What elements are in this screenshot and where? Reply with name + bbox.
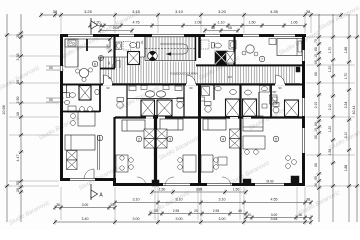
- shaft box left: [128, 52, 140, 65]
- bath partition x184: [183, 84, 185, 117]
- room1 dining table: [78, 111, 95, 126]
- pilaster bottom 1: [152, 180, 159, 186]
- svg-text:2.08: 2.08: [195, 21, 202, 25]
- svg-text:2.10: 2.10: [314, 102, 318, 109]
- wc left toilet: [117, 102, 123, 108]
- svg-text:1.70: 1.70: [344, 73, 348, 80]
- svg-text:16: 16: [16, 112, 20, 116]
- room number 4: [220, 136, 226, 142]
- room number 5: [273, 136, 279, 142]
- central washroom sinks: [145, 91, 154, 97]
- window gap top wall 1: [68, 34, 93, 37]
- section marker A bottom: [90, 184, 92, 200]
- room1 closet front: [97, 135, 99, 170]
- svg-text:60: 60: [49, 66, 53, 70]
- svg-text:3.15: 3.15: [132, 9, 141, 14]
- shaft pair center left: [141, 100, 155, 116]
- svg-text:1.20: 1.20: [328, 66, 332, 73]
- room4 door arc: [222, 177, 231, 186]
- svg-text:3: 3: [169, 137, 171, 141]
- interior wall y112 bath1: [62, 111, 100, 113]
- pilaster bottom 2: [243, 179, 251, 186]
- top bath R toilet: [212, 43, 215, 49]
- kitchen wall stub: [86, 39, 88, 51]
- bath5 shaft: [285, 100, 299, 117]
- svg-text:70: 70: [314, 39, 318, 43]
- svg-text:3.00: 3.00: [176, 217, 183, 221]
- window gap top wall 5: [274, 34, 295, 37]
- interior wall x155 (apartment divider): [154, 115, 157, 186]
- svg-text:10.44: 10.44: [352, 106, 356, 115]
- room4 bed: [203, 119, 226, 130]
- room7 table: [246, 45, 254, 53]
- svg-text:6: 6: [94, 62, 96, 66]
- svg-text:2.95: 2.95: [173, 209, 180, 213]
- svg-text:1.56: 1.56: [328, 149, 332, 156]
- interior wall y117 (bath band bottom): [115, 116, 302, 118]
- room2 door arc: [137, 177, 146, 186]
- bath1 washer: [68, 106, 76, 112]
- room1 side chairs: [120, 156, 124, 160]
- interior wall x198 (apartment divider): [198, 37, 201, 58]
- svg-text:88: 88: [314, 60, 318, 64]
- svg-text:3.10: 3.10: [219, 198, 226, 202]
- round dining table: [79, 68, 88, 77]
- svg-text:2.34: 2.34: [344, 102, 348, 109]
- svg-text:3.25: 3.25: [84, 9, 93, 14]
- wc right toilet: [177, 102, 183, 108]
- top bath R shaft 2: [226, 52, 235, 64]
- svg-text:3.10: 3.10: [176, 198, 183, 202]
- door arc into walkway 1: [104, 75, 113, 84]
- svg-text:10: 10: [314, 54, 318, 58]
- room4 desk: [201, 155, 213, 172]
- kitchen counter top: [65, 39, 110, 47]
- interior wall y68 left unit: [100, 68, 115, 70]
- room3 desk: [183, 155, 196, 172]
- interior wall y84 (bath band top): [63, 84, 302, 86]
- bottom dim row 3.10s: [115, 202, 311, 204]
- door gaps in y117 wall: [146, 117, 153, 119]
- room7 bed: [277, 39, 302, 56]
- interior wall x100 bath1: [99, 84, 101, 112]
- door arc into walkway 3: [276, 75, 285, 84]
- svg-text:88: 88: [314, 163, 318, 167]
- bath5 toilet: [273, 107, 279, 113]
- bath5 sink counter: [260, 86, 270, 93]
- svg-text:20: 20: [154, 209, 158, 213]
- svg-text:BP: BP: [272, 90, 276, 94]
- svg-text:88: 88: [314, 72, 318, 76]
- interior wall x234 upper: [233, 37, 235, 66]
- svg-text:3.20: 3.20: [218, 9, 227, 14]
- window gap top wall 3: [205, 34, 220, 37]
- stair bay right wall: [195, 37, 197, 61]
- outer wall bottom jog: [113, 178, 116, 186]
- svg-text:2.10: 2.10: [328, 104, 332, 111]
- pilaster bottom 3: [291, 176, 299, 185]
- svg-text:1.86: 1.86: [344, 47, 348, 54]
- room number 1: [97, 135, 103, 141]
- bath4 toilet: [205, 106, 211, 112]
- bath partition x127: [126, 84, 128, 117]
- window gap top wall stair: [152, 34, 184, 37]
- section marker A top: [90, 18, 92, 34]
- stair treads: [147, 37, 192, 61]
- shaft pair right R: [243, 99, 257, 117]
- svg-text:50: 50: [16, 80, 20, 84]
- room3 door arc: [165, 177, 174, 186]
- svg-text:38: 38: [16, 188, 20, 192]
- dimension mini row above wall: [100, 30, 132, 32]
- svg-text:20: 20: [194, 209, 198, 213]
- svg-text:88: 88: [211, 26, 215, 30]
- dimension column right 3: [348, 14, 350, 222]
- svg-text:3.00: 3.00: [271, 213, 278, 217]
- stair bay left wall: [144, 37, 146, 57]
- svg-text:M.90: M.90: [266, 180, 273, 184]
- svg-text:38: 38: [306, 198, 310, 202]
- window gap bottom wall 1: [70, 178, 95, 181]
- wall leader labels 60: [46, 65, 64, 67]
- outer wall left: [60, 34, 63, 181]
- window gap right wall 2: [302, 98, 305, 116]
- svg-text:3.10: 3.10: [133, 198, 140, 202]
- svg-text:38: 38: [306, 9, 311, 14]
- svg-text:4.35: 4.35: [270, 9, 279, 14]
- svg-text:30: 30: [247, 213, 251, 217]
- top bath L sink: [116, 42, 122, 50]
- wall x241 bath band: [239, 84, 241, 117]
- wall x259 bath5: [258, 92, 260, 117]
- interior wall x115 upper: [113, 37, 115, 68]
- room5 chairs right: [286, 156, 291, 161]
- window gap right wall 3: [302, 128, 305, 153]
- kitchen stove box: [68, 40, 76, 46]
- shaft pair center right: [157, 100, 172, 116]
- balcony walkway hatch: [101, 57, 295, 83]
- svg-text:7: 7: [261, 57, 263, 61]
- svg-text:2.10: 2.10: [344, 132, 348, 139]
- outer wall top: [60, 34, 306, 37]
- bottom dim row right (30 3.00 36): [246, 217, 311, 219]
- svg-text:4.75: 4.75: [133, 21, 140, 25]
- dimension column right 1: [318, 14, 320, 222]
- svg-text:60: 60: [49, 98, 53, 102]
- outer wall bottom left part: [60, 178, 116, 181]
- bottom dim row left (38 3.00 30): [55, 207, 115, 209]
- room5 bed: [243, 116, 263, 131]
- stair under hatch: [146, 62, 195, 84]
- washroom corner fixtures: [129, 86, 136, 91]
- svg-text:1.50: 1.50: [159, 187, 166, 191]
- svg-text:5: 5: [275, 137, 277, 141]
- door arc into walkway 2: [187, 75, 196, 84]
- room4 wardrobe: [230, 129, 241, 139]
- top bath L toilet: [137, 42, 140, 48]
- room2 wardrobe: [144, 129, 155, 139]
- svg-text:4: 4: [222, 137, 224, 141]
- svg-text:2.08: 2.08: [113, 26, 119, 30]
- dimension column far left (overall): [6, 14, 8, 222]
- bath1 sink: [64, 100, 69, 104]
- svg-text:36: 36: [314, 183, 318, 187]
- sink right small: [262, 104, 267, 108]
- svg-text:36: 36: [298, 213, 302, 217]
- room2 desk: [116, 155, 128, 172]
- interior mini dim 2.08: [109, 38, 111, 52]
- room number 2: [136, 136, 142, 142]
- svg-text:28: 28: [16, 34, 20, 38]
- svg-text:10.98: 10.98: [2, 105, 6, 115]
- svg-text:50: 50: [314, 176, 318, 180]
- window gap bottom wall 2: [163, 183, 190, 186]
- dimension column right 2: [332, 14, 334, 222]
- window gap bottom wall 3: [207, 183, 232, 186]
- interior wall y65 room7 bottom: [196, 64, 303, 66]
- dimension chain top row 1: [41, 14, 341, 16]
- room5 desk: [243, 136, 265, 149]
- svg-text:3.88: 3.88: [196, 187, 203, 191]
- svg-text:4.55: 4.55: [271, 198, 278, 202]
- window gap top wall 2: [119, 34, 134, 37]
- kitchen sink circle: [98, 55, 103, 60]
- top bath R sink: [229, 41, 236, 50]
- door gap left wall: [60, 66, 63, 71]
- svg-text:3.38: 3.38: [16, 54, 20, 61]
- svg-text:3.40: 3.40: [82, 217, 89, 221]
- chairs around table: [75, 69, 79, 73]
- svg-text:50: 50: [16, 181, 20, 185]
- svg-text:38: 38: [53, 9, 58, 14]
- svg-text:3.00: 3.00: [219, 217, 226, 221]
- door gaps in y84 wall: [103, 84, 112, 86]
- bath4 wc oval: [230, 90, 237, 95]
- svg-text:30: 30: [110, 203, 114, 207]
- svg-text:3.64: 3.64: [271, 217, 278, 221]
- top bath L washer dashed: [123, 42, 131, 51]
- svg-text:KL: KL: [140, 40, 144, 44]
- shaft box right: [215, 51, 228, 65]
- room1 bed: [65, 135, 95, 150]
- stair outline: [145, 37, 195, 61]
- svg-text:1.20: 1.20: [328, 126, 332, 133]
- stair direction symbol: [148, 51, 158, 61]
- svg-text:3.00: 3.00: [82, 203, 89, 207]
- dimension column left: [20, 14, 22, 222]
- bottom dim row (20 2.95 20 2.95): [150, 213, 246, 215]
- top bath R dashed fixture: [201, 40, 209, 49]
- window gap top wall 4: [243, 34, 259, 37]
- svg-text:38: 38: [56, 203, 60, 207]
- room1 wardrobe: [67, 151, 78, 161]
- svg-text:E P: E P: [228, 75, 232, 79]
- room3 wardrobe: [157, 129, 168, 139]
- kitchen counter left: [65, 39, 78, 67]
- svg-text:1.10: 1.10: [218, 21, 225, 25]
- window gap right wall 1: [302, 50, 305, 61]
- room3 bed: [160, 119, 183, 130]
- bath4 sink: [215, 86, 221, 91]
- outer wall bottom right part: [113, 183, 305, 186]
- room2 bed: [122, 120, 145, 131]
- door gap bottom wall M90: [255, 183, 284, 186]
- svg-text:KOLEDUJO DUPAN: KOLEDUJO DUPAN: [170, 72, 197, 76]
- room number 6: [92, 61, 98, 67]
- svg-text:1.70: 1.70: [328, 47, 332, 54]
- svg-text:4.47: 4.47: [16, 155, 20, 162]
- svg-text:88: 88: [314, 122, 318, 126]
- dimension column right 4: [356, 14, 358, 222]
- bath5 wc oval: [245, 90, 252, 95]
- interior wall x271 bath: [270, 84, 272, 117]
- balcony post: [296, 67, 300, 72]
- top bath L door arc: [112, 60, 120, 68]
- bath1 bidet: [95, 89, 99, 95]
- dimension chain top row 2: [90, 25, 305, 27]
- bath4 shower: [202, 87, 210, 96]
- svg-text:88: 88: [314, 135, 318, 139]
- bath5 shower: [270, 95, 278, 104]
- svg-text:2: 2: [138, 137, 140, 141]
- room7 nightstand: [269, 39, 276, 45]
- svg-text:10: 10: [314, 128, 318, 132]
- stair arrow: [160, 44, 188, 54]
- room1 door arc: [84, 169, 94, 179]
- bath1 toilet: [67, 93, 70, 98]
- svg-text:2.50: 2.50: [16, 97, 20, 104]
- interior wall x115 lower: [113, 117, 115, 181]
- svg-text:2.95: 2.95: [213, 209, 220, 213]
- svg-text:08: 08: [228, 26, 232, 30]
- room number 7: [259, 56, 265, 62]
- bath1 shaft: [79, 86, 91, 101]
- svg-text:1.88: 1.88: [344, 165, 348, 172]
- svg-text:1.50: 1.50: [249, 21, 256, 25]
- room number 3: [167, 136, 173, 142]
- bath partition x214: [213, 84, 215, 100]
- interior wall x240 lower: [239, 117, 241, 184]
- svg-text:1.06: 1.06: [291, 21, 298, 25]
- bath partition y99 sinks counter: [127, 98, 184, 100]
- room4 table: [218, 157, 227, 165]
- shaft pair right L: [226, 99, 240, 117]
- svg-text:3.10: 3.10: [175, 9, 184, 14]
- svg-text:88: 88: [314, 47, 318, 51]
- outer wall right: [302, 34, 305, 186]
- svg-text:3.00: 3.00: [133, 217, 140, 221]
- bath1 niche: [63, 85, 67, 93]
- bath small fixtures: [141, 86, 147, 90]
- balcony edge lines: [100, 56, 145, 58]
- svg-text:1.50: 1.50: [233, 187, 240, 191]
- bottom dim row lowest: [55, 221, 311, 223]
- bottom dim row mid-upper (1.50 3.88 1.50): [152, 191, 246, 193]
